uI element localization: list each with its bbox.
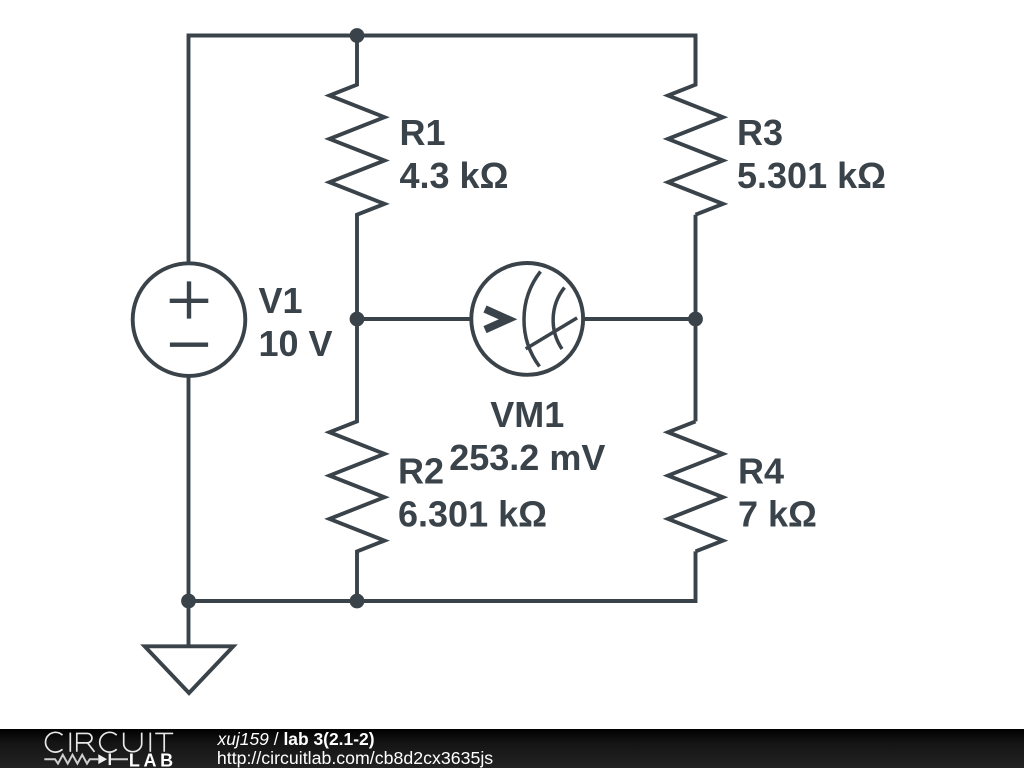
svg-text:R2: R2 bbox=[398, 451, 444, 492]
svg-text:VM1: VM1 bbox=[490, 394, 564, 435]
svg-text:4.3 kΩ: 4.3 kΩ bbox=[400, 155, 509, 196]
svg-text:253.2 mV: 253.2 mV bbox=[449, 437, 605, 478]
svg-text:R4: R4 bbox=[738, 451, 784, 492]
svg-text:7 kΩ: 7 kΩ bbox=[738, 494, 817, 535]
svg-text:LAB: LAB bbox=[129, 751, 177, 768]
svg-text:5.301 kΩ: 5.301 kΩ bbox=[737, 155, 886, 196]
svg-text:R1: R1 bbox=[400, 112, 446, 153]
svg-text:http://circuitlab.com/cb8d2cx3: http://circuitlab.com/cb8d2cx3635js bbox=[217, 748, 493, 768]
svg-text:R3: R3 bbox=[737, 112, 783, 153]
svg-text:6.301 kΩ: 6.301 kΩ bbox=[398, 494, 547, 535]
svg-text:V1: V1 bbox=[259, 280, 303, 321]
svg-text:10 V: 10 V bbox=[259, 323, 333, 364]
svg-text:xuj159 / lab 3(2.1-2): xuj159 / lab 3(2.1-2) bbox=[217, 729, 375, 749]
